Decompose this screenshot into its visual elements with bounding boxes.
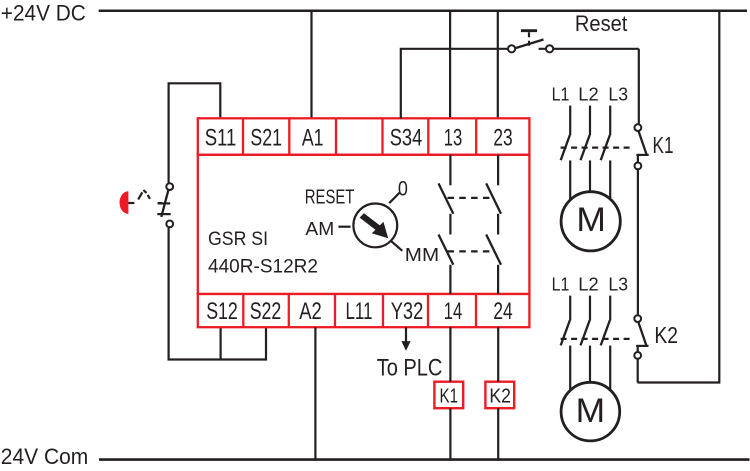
svg-text:L1: L1 [552,84,570,105]
wire reset to K1 contact [638,49,640,124]
svg-text:23: 23 [493,125,512,152]
svg-text:0: 0 [398,177,408,200]
node 24V Com rail [99,458,750,461]
wire 14 to K1 coil [449,327,451,382]
svg-text:Y32: Y32 [391,298,424,325]
motor M1 [561,192,620,251]
svg-text:To PLC: To PLC [377,354,443,381]
svg-text:K2: K2 [489,384,511,407]
motor branch 2 stubs L1 L2 L3 [570,296,610,321]
switch Reset pushbutton [508,31,639,53]
svg-text:24V Com: 24V Com [1,444,89,469]
svg-text:K1: K1 [440,384,459,407]
svg-text:A1: A1 [302,125,324,152]
svg-text:Reset: Reset [575,11,628,36]
svg-text:24: 24 [493,298,512,325]
linkage dashed channel1-channel2 upper [448,197,493,199]
svg-text:13: 13 [444,125,463,152]
rotary switch reset selector [338,193,402,251]
svg-text:S12: S12 [206,298,238,325]
linkage dashed K2 mains [561,338,634,340]
wire S34 reset loop [401,49,508,119]
svg-text:L11: L11 [346,298,373,325]
e-stop NC contact [157,183,173,227]
coil K2 [485,382,514,409]
wire K2 coil to 24V Com [497,408,499,459]
svg-text:440R-S12R2: 440R-S12R2 [208,256,318,278]
svg-text:A2: A2 [299,298,322,325]
svg-text:L2: L2 [578,274,598,295]
linkage dashed channel1-channel2 lower [448,250,493,252]
contact 23-24 channel 2 [486,155,501,294]
wire K1 mains to motor 1 [570,160,610,200]
wire A1 to +24V [310,11,312,119]
coil K1 [434,382,463,409]
contact K1 aux [635,124,649,169]
relay U1 body [198,155,530,294]
svg-text:L2: L2 [578,84,598,105]
e-stop mechanical link [128,190,162,203]
svg-text:S11: S11 [205,125,237,152]
svg-text:S21: S21 [250,125,282,152]
wire S12 down [220,327,222,359]
wire 23 to +24V [497,11,499,119]
svg-text:L1: L1 [552,274,570,295]
wire right rail from +24V down [638,11,720,383]
svg-text:+24V DC: +24V DC [1,1,86,26]
svg-text:AM: AM [305,218,334,239]
svg-text:14: 14 [444,298,463,325]
svg-text:RESET: RESET [305,185,355,208]
contactor K1 main contacts [561,135,610,160]
arrow Y32 to PLC [401,327,410,351]
wire S11 to e-stop loop [169,83,221,183]
wire A2 to 24V Com [314,327,316,459]
svg-text:K1: K1 [653,132,674,158]
relay U1 bottom terminal row [198,294,530,327]
pushbutton e-stop mushroom [119,191,128,214]
svg-text:GSR SI: GSR SI [208,228,268,250]
contact 13-14 channel 1 [439,155,454,294]
svg-text:L3: L3 [608,274,628,295]
contactor K2 main contacts [561,320,610,345]
wire e-stop bottom to S12/S22 [169,227,266,359]
svg-text:M: M [576,392,606,430]
svg-text:M: M [576,201,606,239]
node +24V DC rail [99,9,747,12]
wire K1 aux to K2 aux [637,169,639,315]
linkage dashed K1 mains [561,147,634,149]
svg-text:L3: L3 [608,84,628,105]
svg-text:MM: MM [405,244,439,265]
wire K2 mains to motor 2 [570,346,610,391]
svg-text:S34: S34 [390,125,423,152]
motor M2 [561,382,620,441]
svg-text:K2: K2 [654,322,678,348]
wire 13 to +24V [449,11,451,119]
contact K2 aux [634,315,648,359]
wire K1 coil to 24V Com [449,408,451,459]
wire 24 to K2 coil [497,327,499,382]
relay U1 top terminal row [198,118,530,155]
wire K2 aux to right rail [637,359,639,383]
motor branch 1 stubs L1 L2 L3 [570,106,610,136]
svg-text:S22: S22 [250,298,282,325]
